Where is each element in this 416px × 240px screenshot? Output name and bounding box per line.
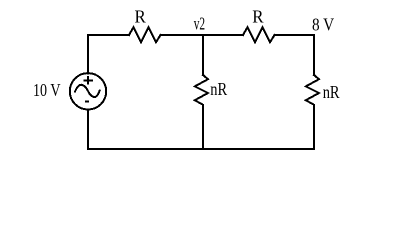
svg-text:R: R bbox=[252, 7, 263, 27]
svg-text:nR: nR bbox=[323, 82, 340, 102]
wire: middle resistor down to bottom wire bbox=[202, 105, 204, 149]
wire: source bottom to bottom wire bbox=[87, 110, 89, 149]
source circle outline bbox=[70, 73, 106, 109]
plus polarity mark bbox=[83, 76, 93, 85]
svg-text:R: R bbox=[135, 7, 146, 27]
resistor nR (middle) bbox=[195, 75, 208, 105]
wire: right resistor down to bottom-right corner bbox=[313, 105, 315, 149]
svg-text:v2: v2 bbox=[194, 14, 205, 34]
minus polarity mark bbox=[85, 101, 89, 103]
wire: bottom return wire bbox=[88, 148, 314, 150]
resistor R2 bbox=[243, 27, 275, 42]
wire: R2 to top-right corner and down to right resistor bbox=[275, 35, 315, 75]
resistor nR (right) bbox=[306, 75, 319, 105]
wire: node v2 down to middle resistor bbox=[202, 35, 204, 75]
resistor R1 bbox=[129, 27, 161, 42]
svg-text:10 V: 10 V bbox=[33, 80, 61, 100]
sine wave inside source bbox=[75, 85, 100, 97]
wire: R1 to R2 through node v2 bbox=[161, 34, 244, 36]
svg-text:8 V: 8 V bbox=[312, 14, 334, 34]
AC voltage source (10 V) bbox=[70, 73, 106, 109]
svg-text:nR: nR bbox=[210, 79, 227, 99]
wire: source top up and across to R1 bbox=[88, 35, 129, 74]
